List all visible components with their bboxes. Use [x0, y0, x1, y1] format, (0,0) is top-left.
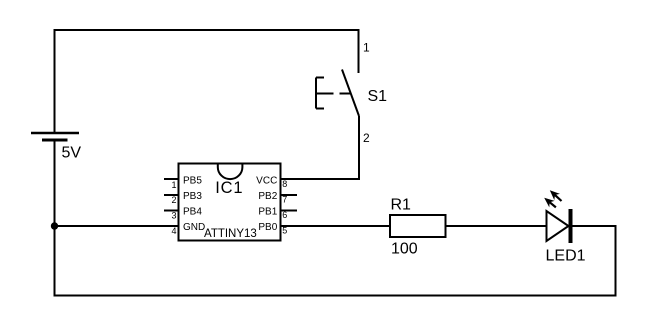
svg-text:PB5: PB5	[183, 175, 202, 186]
IC1 pin 6 number	[282, 210, 287, 220]
svg-text:6: 6	[282, 210, 287, 220]
R1 value label 100	[391, 241, 418, 258]
IC1 pin 7 number	[282, 194, 287, 204]
svg-text:2: 2	[171, 195, 176, 205]
junction node (battery -, GND, return wire)	[51, 222, 58, 229]
svg-text:8: 8	[282, 179, 287, 189]
wire: S1 pin 2 down and left to IC1 VCC pin 8	[281, 116, 360, 179]
IC1 pin name PB1	[258, 207, 277, 218]
S1 pin 1 number	[363, 41, 370, 55]
S1 pin 2 number	[363, 131, 370, 145]
wire: battery - down to junction	[54, 141, 56, 226]
svg-text:PB4: PB4	[183, 207, 202, 218]
svg-text:PB2: PB2	[258, 191, 277, 202]
IC1 pin name PB2	[258, 191, 277, 202]
LED1 reference label	[546, 248, 586, 265]
IC1 pin 6 stub (PB1)	[281, 210, 298, 212]
svg-text:4: 4	[171, 226, 176, 236]
svg-text:ATTINY13: ATTINY13	[204, 228, 257, 240]
svg-text:1: 1	[171, 180, 176, 190]
svg-text:3: 3	[171, 211, 176, 221]
svg-text:2: 2	[363, 131, 370, 145]
LED LED1	[544, 190, 570, 243]
wire: junction down, along bottom and up to LED1 cathode	[55, 226, 616, 296]
svg-text:LED1: LED1	[546, 248, 586, 265]
wire: junction to IC1 GND pin 4	[55, 225, 179, 227]
svg-text:PB0: PB0	[258, 222, 277, 233]
IC1 pin 1 stub (PB5)	[164, 178, 179, 180]
svg-text:7: 7	[282, 194, 287, 204]
svg-text:GND: GND	[183, 222, 205, 233]
IC1 pin 8 number	[282, 179, 287, 189]
wire: IC1 PB0 pin 5 to R1	[281, 225, 391, 227]
S1 reference label	[368, 88, 388, 105]
IC1 pin name PB4	[183, 207, 202, 218]
battery value label 5V	[62, 145, 82, 162]
IC1 pin 4 number	[171, 226, 176, 236]
switch S1	[316, 70, 359, 117]
IC1 pin name VCC	[256, 175, 277, 186]
svg-text:100: 100	[391, 241, 418, 258]
svg-text:1: 1	[363, 41, 370, 55]
svg-text:S1: S1	[368, 88, 388, 105]
wire: battery + up and across to S1 pin 1	[55, 30, 359, 133]
svg-text:5V: 5V	[62, 145, 82, 162]
IC1 pin 3 stub (PB4)	[164, 210, 179, 212]
battery BAT1 5V	[31, 133, 79, 140]
svg-text:VCC: VCC	[256, 175, 277, 186]
IC1 pin name PB0	[258, 222, 277, 233]
op-amp/IC body IC1	[179, 164, 281, 241]
IC1 pin name GND	[183, 222, 205, 233]
IC1 reference label	[215, 179, 243, 197]
wire: R1 to LED1 anode	[446, 225, 547, 227]
IC1 pin 2 number	[171, 195, 176, 205]
IC1 pin name PB3	[183, 191, 202, 202]
svg-text:R1: R1	[391, 197, 412, 214]
IC1 pin name PB5	[183, 175, 202, 186]
IC1 pin 3 number	[171, 211, 176, 221]
R1 reference label	[391, 197, 412, 214]
IC1 pin 5 number	[282, 225, 287, 235]
svg-text:PB3: PB3	[183, 191, 202, 202]
IC1 pin 2 stub (PB3)	[164, 194, 179, 196]
svg-text:PB1: PB1	[258, 207, 277, 218]
svg-text:IC1: IC1	[215, 179, 243, 197]
IC1 pin 7 stub (PB2)	[281, 194, 298, 196]
resistor R1	[390, 215, 446, 237]
IC1 value label ATTINY13	[204, 228, 257, 240]
IC1 pin 1 number	[171, 180, 176, 190]
